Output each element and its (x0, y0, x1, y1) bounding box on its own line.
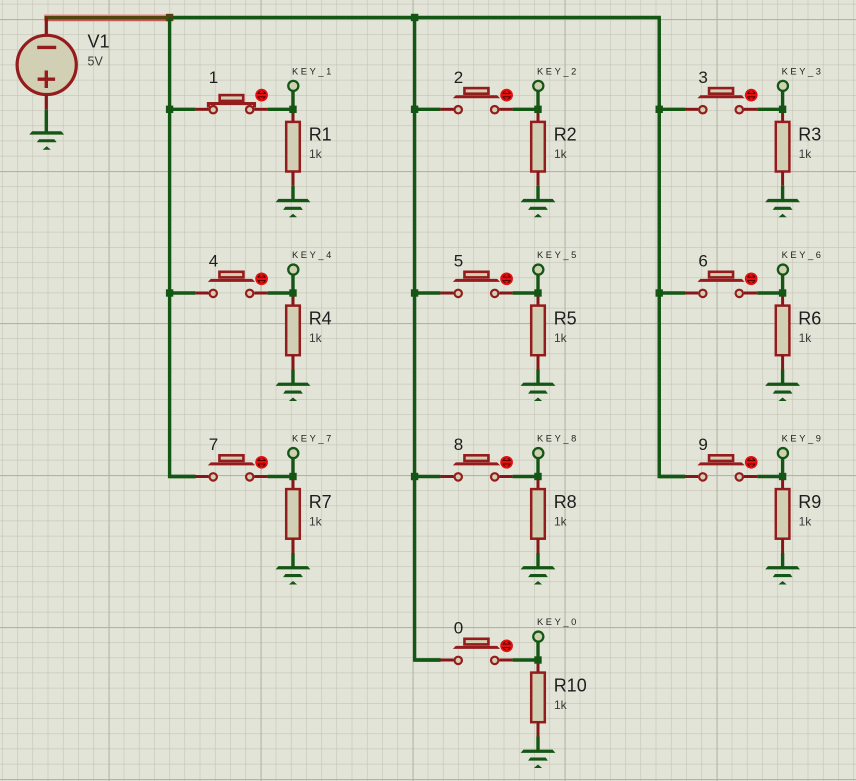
junction node KEY_7 (289, 473, 296, 480)
wire: button KEY_5 to node (513, 291, 538, 294)
pin stub resistor R6 top (781, 297, 784, 307)
pin stub resistor R7 top (292, 480, 295, 490)
actuate indicator of KEY_7 (256, 457, 267, 468)
pin stub resistor R1 top (292, 113, 295, 123)
wire: button KEY_8 to node (513, 475, 538, 478)
wire: R5 to ground (536, 370, 539, 384)
resistor R8 (531, 489, 545, 539)
resistor R7 (286, 489, 300, 539)
svg-text:KEY_8: KEY_8 (537, 434, 579, 444)
pin stub right of button KEY_7 (254, 475, 267, 478)
svg-text:2: 2 (454, 68, 463, 87)
push button KEY_1 (208, 95, 254, 113)
pin stub resistor R5 bottom (537, 355, 540, 369)
ground below R8 (521, 566, 556, 584)
pin stub resistor R9 top (781, 480, 784, 490)
ground below R5 (521, 383, 556, 401)
svg-text:6: 6 (698, 252, 707, 271)
wire: middle column bus (415, 18, 441, 661)
pin stub right of button KEY_9 (744, 475, 757, 478)
pin stub left of button KEY_6 (685, 292, 698, 295)
svg-text:5V: 5V (88, 55, 104, 69)
svg-text:3: 3 (698, 68, 707, 87)
pin stub resistor R6 bottom (781, 355, 784, 369)
ground below V1 (29, 131, 64, 149)
wire: node to terminal KEY_4 (291, 275, 294, 293)
junction node KEY_8 (534, 473, 541, 480)
wire: R7 to ground (291, 553, 294, 567)
svg-text:KEY_9: KEY_9 (782, 434, 824, 444)
pin stub resistor R2 bottom (537, 172, 540, 186)
push button KEY_9 (697, 455, 744, 480)
actuate indicator of KEY_2 (501, 90, 512, 101)
junction: bus col2 row1 (411, 106, 418, 113)
svg-text:1k: 1k (309, 147, 323, 161)
svg-text:1k: 1k (799, 331, 813, 345)
wire: button KEY_7 to node (268, 475, 293, 478)
svg-text:R5: R5 (554, 308, 577, 328)
wire: node to terminal KEY_5 (536, 275, 539, 293)
wire: R8 to ground (536, 553, 539, 567)
junction node KEY_1 (289, 106, 296, 113)
svg-text:1k: 1k (799, 147, 813, 161)
push button KEY_5 (453, 272, 500, 297)
pin stub resistor R4 bottom (292, 355, 295, 369)
wire: button KEY_2 to node (513, 108, 538, 111)
junction node KEY_0 (534, 656, 541, 663)
wire: node to terminal KEY_3 (781, 92, 784, 110)
pin stub resistor R10 top (537, 664, 540, 674)
pin stub resistor R9 bottom (781, 539, 784, 553)
wire: node to terminal KEY_6 (781, 275, 784, 293)
svg-text:KEY_3: KEY_3 (782, 66, 824, 76)
terminal KEY_1 (288, 81, 298, 91)
wire: node to terminal KEY_7 (291, 459, 294, 477)
wire: R1 to ground (291, 186, 294, 200)
junction node KEY_5 (534, 289, 541, 296)
wire: R10 to ground (536, 737, 539, 751)
svg-text:1k: 1k (799, 514, 813, 528)
svg-text:4: 4 (209, 252, 218, 271)
pin stub left of button KEY_1 (195, 108, 208, 111)
svg-text:1: 1 (209, 68, 218, 87)
pin stub resistor R8 top (537, 480, 540, 490)
svg-text:KEY_5: KEY_5 (537, 250, 579, 260)
wire: button KEY_3 to node (757, 108, 782, 111)
wire: node to terminal KEY_0 (536, 642, 539, 660)
wire: R9 to ground (781, 553, 784, 567)
resistor R6 (776, 306, 790, 356)
svg-text:1k: 1k (554, 514, 568, 528)
wire: node to terminal KEY_9 (781, 459, 784, 477)
svg-text:9: 9 (698, 435, 707, 454)
resistor R3 (776, 122, 790, 172)
svg-text:R9: R9 (798, 492, 821, 512)
ground below R3 (765, 199, 800, 217)
ground below R1 (276, 199, 311, 217)
junction: bus col1 row1 (166, 106, 173, 113)
svg-text:R4: R4 (309, 308, 332, 328)
wire: button KEY_4 to node (268, 291, 293, 294)
wire: bus to KEY_1 button (170, 108, 196, 111)
svg-text:R6: R6 (798, 308, 821, 328)
wire: R2 to ground (536, 186, 539, 200)
pin stub left of button KEY_4 (195, 292, 208, 295)
svg-text:R7: R7 (309, 492, 332, 512)
wire: left column bus (170, 18, 196, 477)
pin stub right of button KEY_8 (499, 475, 512, 478)
ground below R9 (765, 566, 800, 584)
pin stub left of button KEY_2 (440, 108, 453, 111)
actuate indicator of KEY_5 (501, 273, 512, 284)
svg-text:R8: R8 (554, 492, 577, 512)
wire: bus to KEY_9 button (659, 475, 685, 478)
battery V1 5V (17, 18, 76, 110)
pin stub resistor R8 bottom (537, 539, 540, 553)
wire: right column bus (659, 18, 685, 477)
push button KEY_6 (697, 272, 744, 297)
svg-text:8: 8 (454, 435, 463, 454)
resistor R4 (286, 306, 300, 356)
pin stub resistor R1 bottom (292, 172, 295, 186)
junction node KEY_4 (289, 289, 296, 296)
pin stub resistor R7 bottom (292, 539, 295, 553)
svg-text:KEY_7: KEY_7 (292, 434, 334, 444)
svg-text:KEY_0: KEY_0 (537, 617, 579, 627)
wire: bus to KEY_0 button (415, 658, 441, 661)
wire: bus to KEY_2 button (415, 108, 441, 111)
pin stub resistor R3 bottom (781, 172, 784, 186)
actuate indicator of KEY_3 (746, 90, 757, 101)
svg-text:1k: 1k (309, 514, 323, 528)
pin stub left of button KEY_0 (440, 659, 453, 662)
actuate indicator of KEY_1 (256, 90, 267, 101)
junction: top of left bus (166, 14, 173, 21)
pin stub right of button KEY_1 (254, 108, 267, 111)
wire: node to terminal KEY_2 (536, 92, 539, 110)
wire: R4 to ground (291, 370, 294, 384)
actuate indicator of KEY_0 (501, 640, 512, 651)
pin stub right of button KEY_5 (499, 292, 512, 295)
wire: top horizontal bus (170, 18, 660, 477)
pin stub left of button KEY_3 (685, 108, 698, 111)
junction: bus col1 row2 (166, 289, 173, 296)
wire: bus to KEY_6 button (659, 291, 685, 294)
svg-text:5: 5 (454, 252, 463, 271)
wire: button KEY_6 to node (757, 291, 782, 294)
pin stub left of button KEY_9 (685, 475, 698, 478)
junction node KEY_2 (534, 106, 541, 113)
terminal KEY_8 (533, 448, 543, 458)
svg-text:R1: R1 (309, 125, 332, 145)
push button KEY_2 (453, 88, 500, 113)
svg-text:KEY_1: KEY_1 (292, 66, 334, 76)
svg-text:7: 7 (209, 435, 218, 454)
pin stub left of button KEY_7 (195, 475, 208, 478)
pin stub right of button KEY_6 (744, 292, 757, 295)
actuate indicator of KEY_9 (746, 457, 757, 468)
junction: top of middle bus (411, 14, 418, 21)
pin stub resistor R5 top (537, 297, 540, 307)
terminal KEY_2 (533, 81, 543, 91)
push button KEY_3 (697, 88, 744, 113)
pin stub resistor R3 top (781, 113, 784, 123)
resistor R2 (531, 122, 545, 172)
wire: button KEY_1 to node (268, 108, 293, 111)
terminal KEY_3 (778, 81, 788, 91)
wire: button KEY_0 to node (513, 658, 538, 661)
svg-text:1k: 1k (309, 331, 323, 345)
push button KEY_7 (208, 455, 255, 480)
svg-text:0: 0 (454, 619, 463, 638)
ground below R6 (765, 383, 800, 401)
pin stub resistor R10 bottom (537, 722, 540, 736)
svg-text:KEY_2: KEY_2 (537, 66, 579, 76)
pin stub right of button KEY_4 (254, 292, 267, 295)
pin stub left of button KEY_8 (440, 475, 453, 478)
junction: bus col3 row1 (656, 106, 663, 113)
actuate indicator of KEY_6 (746, 273, 757, 284)
junction: bus col3 row2 (656, 289, 663, 296)
svg-text:1k: 1k (554, 698, 568, 712)
push button KEY_0 (453, 639, 500, 664)
pin stub resistor R4 top (292, 297, 295, 307)
actuate indicator of KEY_4 (256, 273, 267, 284)
wire: bus to KEY_4 button (170, 291, 196, 294)
resistor R1 (286, 122, 300, 172)
terminal KEY_9 (778, 448, 788, 458)
pin stub right of button KEY_2 (499, 108, 512, 111)
wire: R3 to ground (781, 186, 784, 200)
svg-text:R10: R10 (554, 675, 587, 695)
wire: bus to KEY_5 button (415, 291, 441, 294)
svg-text:1k: 1k (554, 331, 568, 345)
junction node KEY_3 (779, 106, 786, 113)
junction node KEY_6 (779, 289, 786, 296)
ground below R2 (521, 199, 556, 217)
pin stub resistor R2 top (537, 113, 540, 123)
wire: V1 positive rail (red under highlight) (44, 14, 170, 21)
pin stub left of button KEY_5 (440, 292, 453, 295)
ground below R10 (521, 750, 556, 768)
terminal KEY_4 (288, 265, 298, 275)
svg-text:R2: R2 (554, 125, 577, 145)
junction node KEY_9 (779, 473, 786, 480)
svg-text:V1: V1 (88, 32, 110, 52)
ground below R7 (276, 566, 311, 584)
wire: button KEY_9 to node (757, 475, 782, 478)
wire: bus to KEY_7 button (170, 475, 196, 478)
push button KEY_8 (453, 455, 500, 480)
pin stub right of button KEY_3 (744, 108, 757, 111)
terminal KEY_7 (288, 448, 298, 458)
actuate indicator of KEY_8 (501, 457, 512, 468)
wire: node to terminal KEY_1 (291, 92, 294, 110)
push button KEY_4 (208, 272, 255, 297)
terminal KEY_5 (533, 265, 543, 275)
svg-text:1k: 1k (554, 147, 568, 161)
svg-text:KEY_6: KEY_6 (782, 250, 824, 260)
terminal KEY_0 (533, 632, 543, 642)
resistor R9 (776, 489, 790, 539)
ground below R4 (276, 383, 311, 401)
wire: R6 to ground (781, 370, 784, 384)
wire: bus to KEY_3 button (659, 108, 685, 111)
terminal KEY_6 (778, 265, 788, 275)
pin stub right of button KEY_0 (499, 659, 512, 662)
wire: V1 to ground (45, 110, 48, 132)
wire: bus to KEY_8 button (415, 475, 441, 478)
wire: node to terminal KEY_8 (536, 459, 539, 477)
resistor R10 (531, 673, 545, 723)
resistor R5 (531, 306, 545, 356)
svg-text:R3: R3 (798, 125, 821, 145)
junction: bus col2 row2 (411, 289, 418, 296)
svg-text:KEY_4: KEY_4 (292, 250, 334, 260)
junction: bus col2 row3 (411, 473, 418, 480)
